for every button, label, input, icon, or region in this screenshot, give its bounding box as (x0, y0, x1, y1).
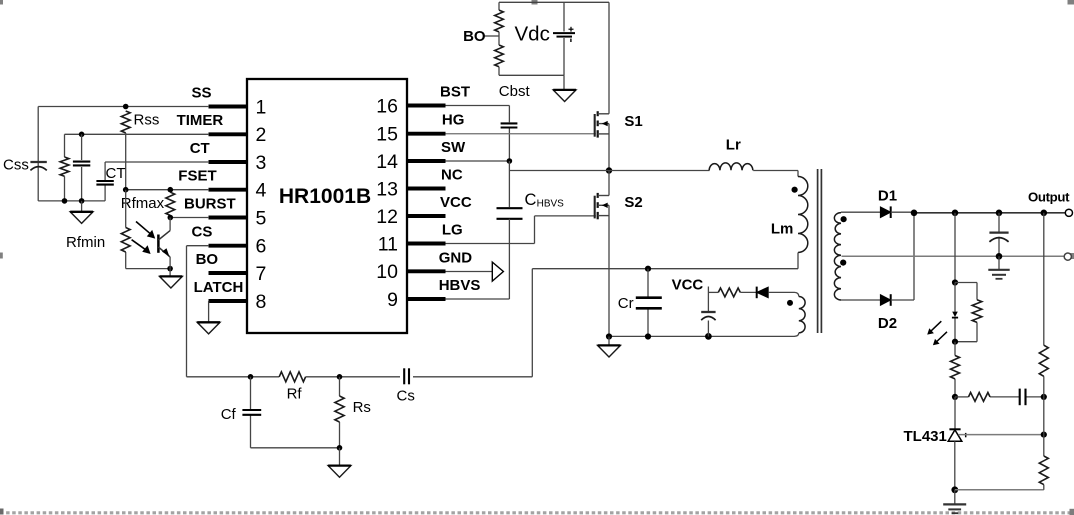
TL431 U2 (948, 429, 966, 441)
wire SW node down (508, 161, 510, 207)
capacitor output branch (998, 213, 1000, 256)
svg-text:D2: D2 (878, 315, 897, 332)
node opto top (952, 279, 958, 285)
wire node to S2 drain (608, 171, 610, 196)
svg-text:C: C (525, 191, 537, 209)
label Css (3, 157, 29, 174)
pin label LATCH (194, 279, 244, 296)
svg-text:9: 9 (387, 289, 398, 311)
capacitor Cr branch (647, 269, 649, 337)
label Lr (726, 137, 741, 154)
svg-text:Cf: Cf (221, 406, 237, 423)
node opto emitter (167, 266, 173, 272)
ground Vdc (553, 75, 576, 101)
wire CT cap branch (104, 162, 106, 201)
node Cr bottom (645, 333, 651, 339)
svg-text:4: 4 (256, 180, 267, 202)
wire bottom left rail (38, 200, 105, 202)
source Vdc plates (553, 27, 575, 42)
border bottom-left mark (0, 509, 4, 515)
pin 10 stub (376, 261, 445, 283)
pin 13 stub (376, 178, 445, 200)
node Cf tap (248, 374, 254, 380)
svg-text:GND: GND (439, 249, 473, 266)
wire return line (842, 255, 1065, 257)
label Rss (134, 112, 160, 129)
pin label CT (190, 140, 210, 157)
svg-text:S1: S1 (624, 113, 642, 130)
output terminal (1065, 209, 1072, 216)
pin 11 stub (378, 233, 446, 255)
wire timer C branch (81, 134, 83, 201)
diode D1 (880, 206, 890, 218)
resistor timer (60, 157, 69, 176)
diode LED opto (952, 312, 958, 318)
inductor Lm primary (798, 177, 808, 253)
label Rf (287, 386, 303, 403)
handle top-right (1068, 0, 1074, 5)
wire right divider (1043, 213, 1045, 490)
svg-text:D1: D1 (878, 187, 897, 204)
ground primary (598, 337, 621, 358)
pin label LG (442, 222, 463, 239)
label Cbst (499, 83, 531, 100)
svg-text:2: 2 (256, 124, 267, 146)
label Rs (353, 399, 371, 416)
node Rs bottom (337, 445, 343, 451)
resistor Rfmin branch wire (125, 190, 127, 269)
svg-text:CS: CS (192, 224, 213, 241)
border dashed bottom edge (0, 511, 1074, 514)
svg-text:Cr: Cr (618, 295, 634, 312)
pin label BO (196, 251, 219, 268)
svg-text:Rs: Rs (353, 399, 371, 416)
wire secondary bottom lead (841, 299, 882, 301)
label D2 (878, 315, 897, 332)
wire top bus (499, 1, 609, 3)
node timer R bottom (62, 198, 68, 204)
ground opto (160, 269, 183, 288)
svg-text:Lm: Lm (771, 221, 794, 238)
wire diode to aux coil (768, 292, 799, 296)
svg-text:1: 1 (256, 96, 267, 118)
label CHBVS (525, 191, 565, 210)
label Cr (618, 295, 634, 312)
wire VCC branch (708, 291, 718, 293)
pin 16 stub (376, 95, 445, 117)
resistor Rfmax (166, 192, 175, 215)
node RC right (1041, 394, 1047, 400)
svg-text:6: 6 (256, 236, 267, 258)
node opto bottom (952, 339, 958, 345)
node SS/Rss junction (123, 104, 129, 110)
pin 9 stub (387, 289, 445, 311)
wire Cf to Rs bottom (251, 447, 340, 449)
wire VCC stub (707, 287, 709, 312)
pin label TIMER (177, 112, 224, 129)
node rail D (911, 210, 918, 217)
svg-text:Rf: Rf (287, 386, 303, 403)
ground Rs (328, 448, 351, 477)
svg-text:BURST: BURST (184, 195, 236, 212)
resistor Rss (121, 111, 130, 133)
node TIMER cap tap (79, 132, 85, 138)
svg-text:HG: HG (442, 112, 465, 129)
label Rfmin (66, 234, 105, 251)
svg-text:11: 11 (378, 233, 398, 255)
diode aux (757, 287, 769, 299)
pin label HBVS (439, 277, 481, 294)
svg-text:VCC: VCC (440, 194, 472, 211)
ground left (70, 201, 93, 224)
resistor Rfmin (121, 228, 130, 253)
node rail res (1041, 210, 1048, 217)
svg-text:10: 10 (376, 261, 398, 283)
wire GND arrow line (446, 271, 493, 273)
wire CT pin3 (105, 161, 209, 163)
wire SW rail (509, 170, 709, 172)
resistor fb upper (951, 356, 960, 379)
svg-text:CT: CT (190, 140, 210, 157)
wire VCC cap to rail (707, 321, 709, 337)
wire RC branch (955, 396, 1044, 398)
label CT (106, 165, 126, 182)
wire Cf branch (250, 377, 252, 448)
capacitor VCC (701, 312, 715, 320)
wire fb vertical (954, 213, 956, 283)
node VCC cap bottom (705, 333, 712, 340)
inductor Lr (709, 163, 753, 170)
resistor RC (969, 393, 991, 402)
wire left rail vertical (37, 107, 39, 201)
wire CS bottom rail (187, 376, 533, 378)
capacitor Css (30, 162, 46, 170)
diode D2 (880, 294, 890, 306)
wire aux bottom (795, 333, 799, 337)
wire res to diode (740, 291, 756, 293)
svg-text:Vdc: Vdc (515, 22, 550, 45)
node Lm polarity dot (792, 187, 798, 193)
wire FSET pin4 (126, 189, 209, 191)
svg-text:VCC: VCC (672, 277, 704, 294)
wire BO divider mid plain (498, 32, 500, 45)
svg-text:Rfmin: Rfmin (66, 234, 105, 251)
handle top-middle (532, 0, 538, 5)
pin 8 stub (209, 291, 267, 313)
wire BURST pin5 (170, 217, 209, 219)
pin label CS (192, 224, 213, 241)
resistor VCC (718, 288, 740, 297)
pin 3 stub (209, 152, 267, 174)
wire fb mid (954, 342, 956, 397)
wire Rss to FSET node (125, 133, 127, 190)
wire Lr to Lm (753, 171, 798, 177)
node rail fb (952, 210, 959, 217)
pin label BST (440, 84, 470, 101)
svg-text:HBVS: HBVS (537, 198, 565, 209)
node timer C bottom (79, 198, 85, 204)
wire CS vertical (186, 246, 188, 377)
label TL431 (904, 428, 947, 445)
resistor LED parallel (972, 300, 982, 323)
svg-text:Lr: Lr (726, 137, 741, 154)
resistor Rs (335, 396, 344, 422)
wire divider bottom (499, 74, 564, 76)
capacitor CHBVS (497, 208, 523, 219)
svg-text:LATCH: LATCH (194, 279, 244, 296)
pin label FSET (178, 168, 216, 185)
svg-text:BO: BO (463, 28, 486, 45)
pin label BURST (184, 195, 236, 212)
wire LG (446, 243, 535, 245)
node fb mid (952, 394, 958, 400)
opto emit arrow 1 (927, 321, 941, 334)
transistor opto phototransistor (158, 218, 170, 269)
node SW (507, 158, 513, 164)
wire TL431 cathode (954, 397, 956, 430)
wire Rs branch (339, 377, 341, 448)
svg-text:Rfmax: Rfmax (121, 195, 165, 212)
wire BST (446, 106, 510, 123)
wire bottom fb rail (955, 489, 1044, 491)
label Cf (221, 406, 237, 423)
pin 12 stub (376, 206, 445, 228)
wire TL431 ref line (958, 434, 1044, 436)
svg-text:12: 12 (376, 206, 398, 228)
svg-text:FSET: FSET (178, 168, 216, 185)
wire HG (446, 133, 596, 135)
svg-text:14: 14 (376, 151, 398, 173)
node half-bridge (606, 167, 612, 173)
capacitor timer (73, 162, 90, 166)
wire LG up to S2 gate (535, 216, 596, 244)
ground output (988, 256, 1009, 279)
svg-text:HR1001B: HR1001B (279, 185, 371, 208)
svg-text:SS: SS (192, 84, 212, 101)
handle right-middle (1068, 253, 1074, 259)
opto light arrow 1 (136, 222, 155, 239)
label Vdc (515, 22, 550, 45)
transistor S2 (595, 193, 643, 219)
wire Lm bottom (532, 253, 798, 269)
svg-text:TIMER: TIMER (177, 112, 224, 129)
resistor BO divider lower (495, 45, 504, 75)
svg-text:TL431: TL431 (904, 428, 947, 445)
wire SW (446, 160, 510, 162)
svg-text:Output: Output (1028, 190, 1070, 205)
svg-text:Cbst: Cbst (499, 83, 531, 100)
svg-text:Cs: Cs (397, 388, 415, 405)
node BURST (168, 215, 174, 221)
node secondary dot bottom (840, 260, 846, 266)
wire HBVS (446, 298, 510, 300)
wire secondary top lead (841, 211, 882, 213)
svg-text:LG: LG (442, 222, 463, 239)
transformer core (818, 169, 822, 333)
label D1 (878, 187, 897, 204)
svg-text:16: 16 (376, 95, 398, 117)
svg-text:3: 3 (256, 152, 267, 174)
resistor BO divider upper (495, 2, 504, 32)
return terminal (1064, 253, 1071, 260)
svg-text:BO: BO (196, 251, 219, 268)
pin 2 stub (209, 124, 267, 146)
handle top-left (0, 0, 3, 5)
node Cr top (645, 266, 651, 272)
source Vdc vertical (563, 2, 565, 75)
svg-text:15: 15 (376, 124, 398, 146)
wire LED branch (954, 283, 956, 342)
svg-text:SW: SW (441, 139, 466, 156)
GND arrow (492, 262, 503, 281)
node anode bottom (951, 486, 958, 493)
label Output (1028, 190, 1070, 205)
pin 15 stub (376, 124, 445, 146)
wire D2 up to rail (891, 212, 914, 300)
node FSET/Rss (123, 187, 129, 193)
handle left-middle (0, 253, 3, 259)
ground TL431 (943, 490, 966, 513)
node secondary dot top (841, 216, 847, 222)
pin 14 stub (376, 151, 445, 173)
svg-text:NC: NC (441, 167, 463, 184)
wire LATCH down (208, 301, 210, 322)
node FSET/Rfmax (168, 187, 174, 193)
capacitor Cr (636, 298, 662, 309)
node ref right (1041, 432, 1047, 438)
pin label VCC (440, 194, 472, 211)
resistor divider lower (1039, 456, 1048, 485)
pin 1 stub (209, 96, 267, 118)
svg-text:BST: BST (440, 84, 470, 101)
node S2 source gnd (606, 333, 612, 339)
label BO top (463, 28, 486, 45)
capacitor CT (96, 181, 113, 185)
opto emit arrow 2 (933, 332, 947, 345)
wire Cbst to SW node (508, 129, 510, 162)
pin 5 stub (209, 207, 267, 229)
pin label HG (442, 112, 465, 129)
svg-text:CT: CT (106, 165, 126, 182)
wire D1 to rail node (891, 211, 914, 213)
svg-text:8: 8 (256, 291, 267, 313)
inductor secondary bottom (834, 255, 841, 300)
handle bottom-right (1070, 509, 1074, 515)
svg-text:13: 13 (376, 178, 398, 200)
pin 4 stub (209, 180, 267, 202)
pin label SW (441, 139, 466, 156)
node Rs tap (337, 374, 343, 380)
wire opto emitter rail (126, 268, 170, 270)
capacitor output (989, 233, 1008, 242)
node rail cap (996, 210, 1003, 217)
node aux polarity dot (787, 300, 793, 306)
wire Cs to resonant node (531, 269, 533, 377)
transistor S1 (595, 111, 643, 137)
ground LATCH (197, 322, 220, 334)
wire output rail (914, 212, 1066, 214)
op-amp U1 HR1001B controller body (247, 79, 407, 333)
capacitor Cbst (501, 123, 518, 127)
wire TL431 anode (954, 441, 956, 490)
wire S1 drain (608, 2, 610, 114)
label Cs (397, 388, 415, 405)
wire CHBVS to HBVS pin (508, 219, 510, 299)
pin 7 stub (209, 263, 267, 285)
wire bottom rail (609, 335, 795, 337)
wire BO tap (484, 35, 499, 37)
inductor secondary top (834, 213, 841, 256)
pin label NC (441, 167, 463, 184)
wire CS pin6 (187, 245, 210, 247)
wire S1 body-source to node (608, 124, 610, 171)
svg-text:S2: S2 (624, 194, 642, 211)
resistor divider upper (1039, 345, 1048, 376)
label VCC (672, 277, 704, 294)
label Rfmax (121, 195, 165, 212)
capacitor Cs (404, 368, 409, 384)
capacitor Cf (242, 410, 261, 415)
wire S2 source down (608, 205, 610, 336)
pin label SS (192, 84, 212, 101)
svg-text:7: 7 (256, 263, 267, 285)
svg-text:Css: Css (3, 157, 29, 174)
svg-text:Rss: Rss (134, 112, 160, 129)
label Lm (771, 221, 794, 238)
svg-text:HBVS: HBVS (439, 277, 481, 294)
pin 6 stub (209, 236, 267, 258)
capacitor RC (1020, 389, 1026, 406)
svg-text:5: 5 (256, 207, 267, 229)
pin label GND (439, 249, 473, 266)
wire TIMER pin2 (65, 133, 210, 135)
wire SS pin1 to left rail (38, 106, 209, 108)
opto light arrow 2 (132, 240, 151, 254)
wire LED parallel resistor (955, 283, 977, 342)
resistor Rf (279, 372, 305, 382)
node out cap bottom (996, 253, 1003, 260)
inductor aux winding (799, 297, 805, 333)
wire timer R branch (64, 134, 66, 201)
